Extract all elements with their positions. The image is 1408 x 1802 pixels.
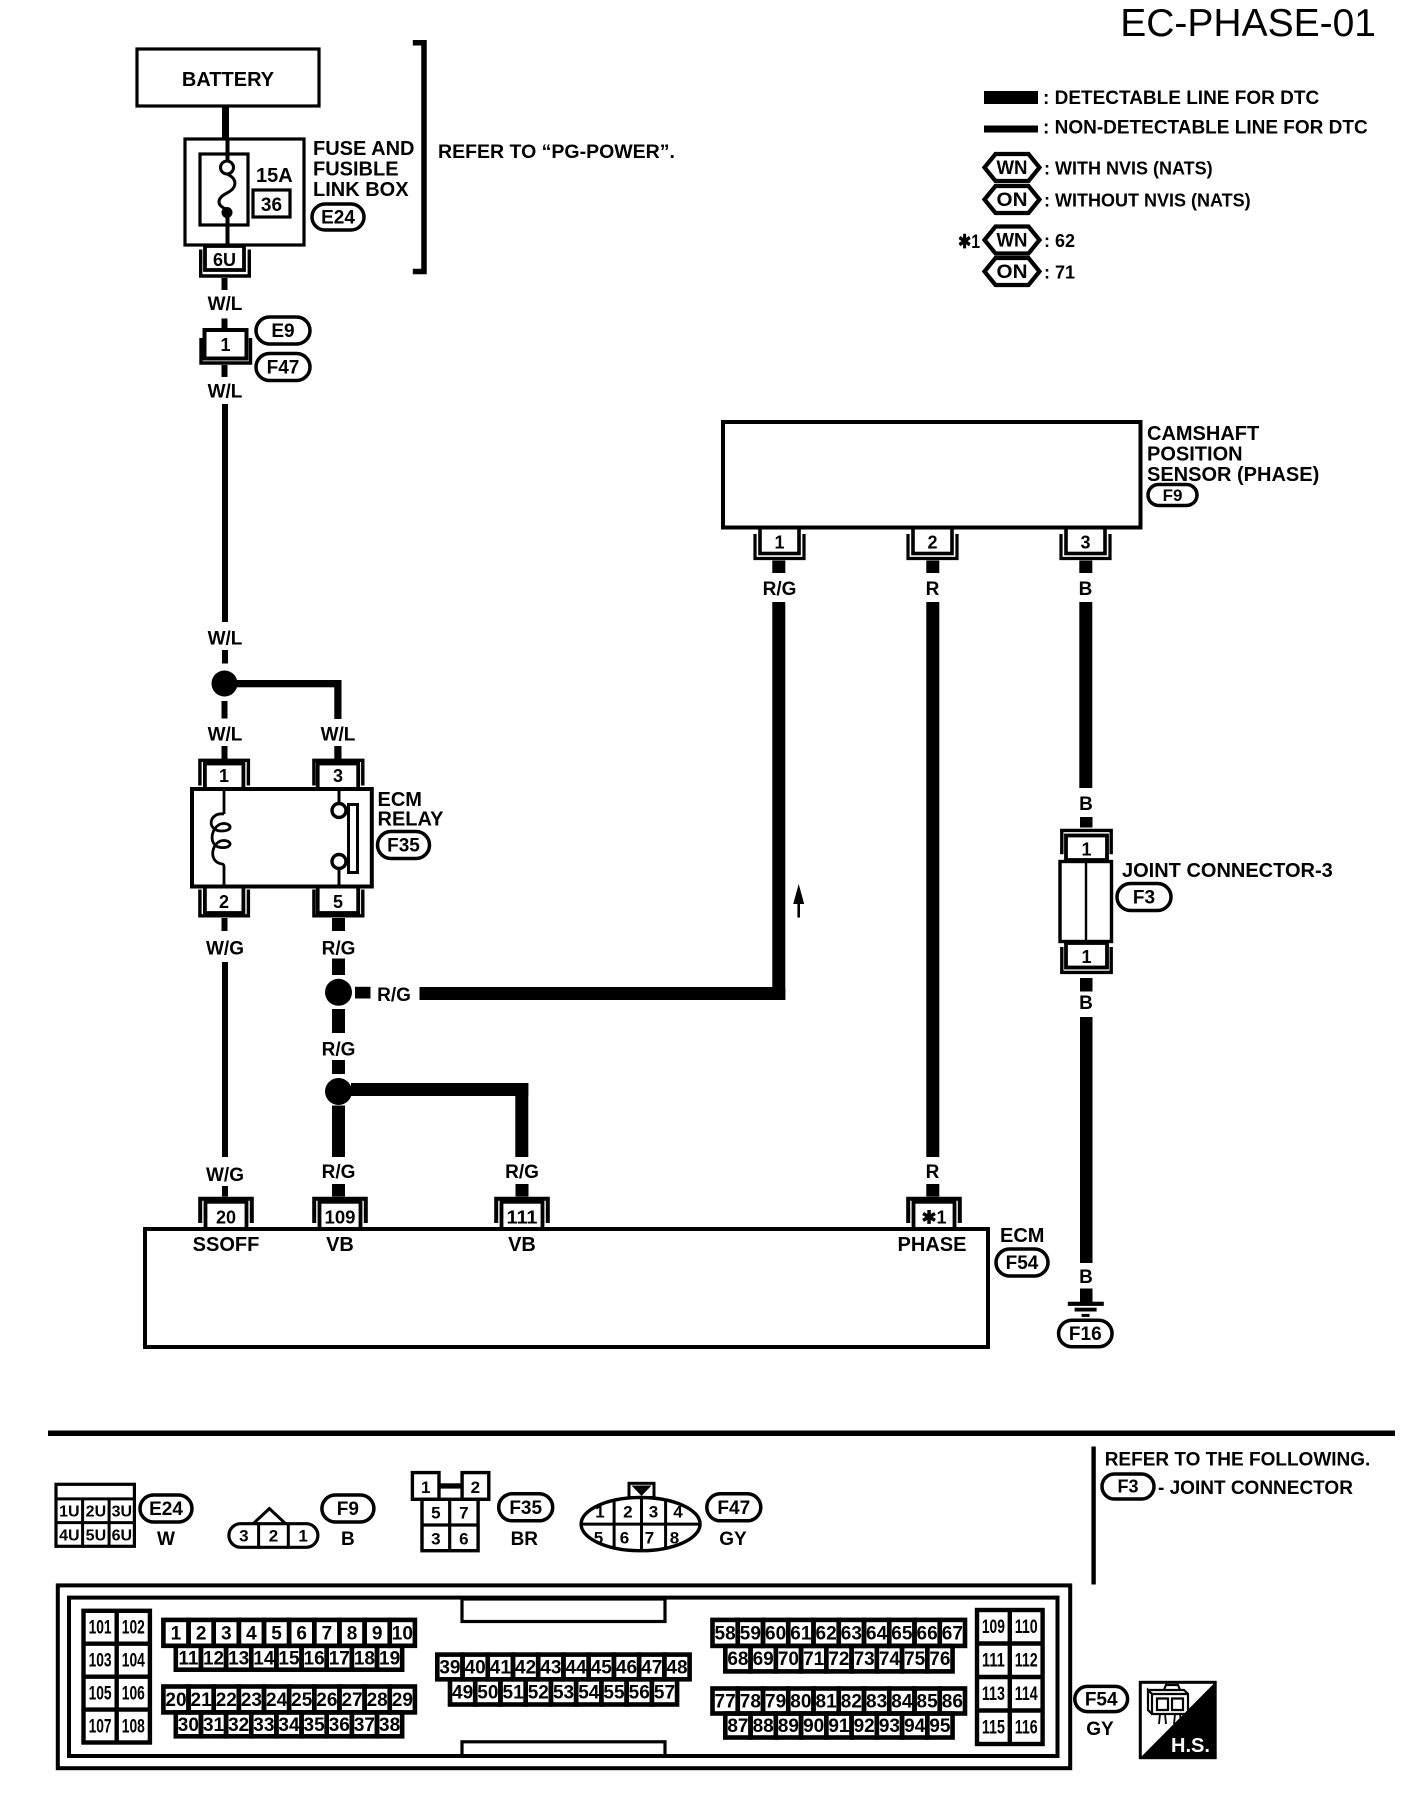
svg-text:F54: F54 (1085, 1690, 1118, 1711)
svg-text:109: 109 (982, 1617, 1005, 1638)
ECM connector cells 87-95 (725, 1714, 952, 1738)
svg-text:W/G: W/G (206, 939, 244, 960)
H.S. logo (1140, 1682, 1215, 1757)
svg-text:42: 42 (515, 1657, 536, 1678)
label GY (1086, 1719, 1114, 1740)
long wire W/G (222, 962, 228, 1157)
svg-text:92: 92 (854, 1716, 875, 1737)
svg-text:B: B (1079, 993, 1093, 1014)
connector id F35 oval (499, 1494, 553, 1521)
ECM pin 111 (496, 1199, 548, 1229)
svg-text:115: 115 (982, 1718, 1005, 1739)
svg-text:66: 66 (917, 1623, 938, 1644)
svg-text:56: 56 (629, 1682, 650, 1703)
svg-text:47: 47 (641, 1657, 662, 1678)
svg-text:17: 17 (329, 1648, 350, 1669)
svg-text:82: 82 (841, 1692, 862, 1713)
svg-text:: 71: : 71 (1044, 263, 1075, 283)
svg-text:E24: E24 (321, 208, 355, 229)
svg-text:114: 114 (1015, 1684, 1038, 1705)
battery (137, 49, 319, 106)
svg-text:: WITHOUT NVIS (NATS): : WITHOUT NVIS (NATS) (1044, 191, 1251, 211)
label R/G above pin 109 (322, 1162, 356, 1183)
svg-text:H.S.: H.S. (1171, 1735, 1210, 1757)
connector id E24 oval (140, 1495, 192, 1522)
svg-text:44: 44 (565, 1657, 587, 1678)
svg-text:63: 63 (841, 1623, 862, 1644)
svg-text:ON: ON (997, 190, 1028, 211)
svg-text:91: 91 (828, 1716, 850, 1737)
svg-text:B: B (1079, 794, 1093, 815)
svg-text:43: 43 (540, 1657, 561, 1678)
svg-text:- JOINT CONNECTOR: - JOINT CONNECTOR (1158, 1478, 1353, 1499)
legend ON text (1044, 191, 1251, 211)
svg-text:46: 46 (616, 1657, 637, 1678)
svg-text:3: 3 (333, 766, 343, 786)
svg-text:25: 25 (291, 1690, 313, 1711)
svg-text:W/L: W/L (321, 725, 356, 746)
wire stub into pin 111 (516, 1184, 529, 1197)
svg-text:106: 106 (122, 1683, 145, 1704)
svg-text:83: 83 (866, 1692, 887, 1713)
label CAMSHAFT POSITION SENSOR (PHASE) (1147, 423, 1319, 486)
svg-text:20: 20 (165, 1690, 186, 1711)
wire battery to fuse box (222, 106, 229, 139)
svg-text:2: 2 (471, 1478, 480, 1497)
note WN badge (985, 227, 1040, 254)
svg-text:REFER TO “PG-POWER”.: REFER TO “PG-POWER”. (438, 141, 675, 163)
svg-text:77: 77 (715, 1692, 736, 1713)
svg-text:10: 10 (392, 1623, 413, 1644)
svg-text:108: 108 (122, 1716, 145, 1737)
svg-text:2U: 2U (86, 1504, 106, 1521)
svg-text:24: 24 (266, 1690, 288, 1711)
legend WN text (1044, 159, 1213, 179)
label B (341, 1529, 355, 1550)
junction dot W/L (212, 671, 238, 697)
relay pin 3 (314, 760, 363, 789)
svg-text:85: 85 (917, 1692, 939, 1713)
svg-text:WN: WN (997, 231, 1028, 252)
svg-text:39: 39 (439, 1657, 460, 1678)
svg-text:109: 109 (325, 1208, 356, 1228)
dash above junction (222, 650, 228, 664)
svg-text:R/G: R/G (505, 1162, 539, 1183)
svg-text:E24: E24 (149, 1499, 183, 1520)
label B above ground (1079, 1267, 1093, 1288)
svg-text:36: 36 (261, 195, 282, 216)
svg-text:5U: 5U (86, 1527, 106, 1544)
svg-text:1: 1 (774, 533, 784, 553)
svg-text:F16: F16 (1069, 1324, 1102, 1345)
svg-text:104: 104 (122, 1650, 145, 1671)
ECM connector cells 77-86 (713, 1689, 966, 1714)
svg-text:11: 11 (178, 1648, 199, 1669)
label BR (511, 1529, 539, 1550)
label R/G (763, 579, 797, 600)
svg-text:22: 22 (216, 1690, 237, 1711)
connector id F3 oval (1117, 884, 1171, 911)
connector id F9 oval (1148, 485, 1197, 506)
connector id E9 oval (256, 317, 310, 344)
svg-text:SENSOR (PHASE): SENSOR (PHASE) (1147, 464, 1319, 486)
svg-text:5: 5 (271, 1623, 282, 1644)
svg-text:57: 57 (654, 1682, 675, 1703)
svg-text:6: 6 (296, 1623, 307, 1644)
svg-text:15: 15 (278, 1648, 300, 1669)
bottom notch (462, 1742, 665, 1756)
svg-text:49: 49 (452, 1682, 473, 1703)
separator line (48, 1431, 1395, 1437)
legend WN badge (985, 154, 1040, 181)
title EC-PHASE-01 (1120, 2, 1376, 45)
svg-text:59: 59 (740, 1623, 761, 1644)
svg-text:F35: F35 (387, 836, 420, 857)
wire stub into pin *1 (926, 1184, 939, 1197)
svg-text:62: 62 (816, 1623, 837, 1644)
svg-text:71: 71 (803, 1649, 825, 1670)
ECM pin 20 (200, 1199, 252, 1229)
svg-text:1: 1 (219, 766, 229, 786)
svg-text:2: 2 (623, 1503, 632, 1522)
ECM connector cells 68-76 (725, 1646, 952, 1672)
camshaft pin 3 (1061, 528, 1110, 559)
long wire R (926, 602, 939, 1157)
svg-text:2: 2 (269, 1527, 278, 1546)
svg-text:5: 5 (431, 1504, 440, 1523)
svg-text:52: 52 (528, 1682, 549, 1703)
legend non-detectable text (1043, 118, 1368, 139)
svg-text:B: B (1079, 579, 1093, 600)
wire stub into relay pin 3 (334, 746, 341, 759)
arrow up on R/G wire (793, 884, 804, 918)
svg-text:F9: F9 (337, 1499, 359, 1520)
svg-text:R: R (926, 579, 940, 600)
svg-text:1: 1 (298, 1527, 307, 1546)
svg-text:FUSIBLE: FUSIBLE (313, 159, 399, 181)
svg-text:69: 69 (753, 1649, 774, 1670)
branch wire to relay pin 3 (225, 680, 342, 719)
label R/G above pin 111 (505, 1162, 539, 1183)
label R (926, 579, 940, 600)
inline connector 1 E9/F47 (201, 330, 251, 363)
svg-text:89: 89 (778, 1716, 799, 1737)
connector id F35 oval (378, 832, 430, 859)
label W/L left (208, 725, 243, 746)
svg-text:3U: 3U (112, 1504, 132, 1521)
wire below connector 1 (222, 365, 228, 377)
branch wire R/G to pin 111 (351, 1083, 528, 1157)
connector id F9 oval (322, 1495, 374, 1522)
svg-text:41: 41 (490, 1657, 512, 1678)
svg-text:107: 107 (89, 1716, 112, 1737)
svg-text:3: 3 (431, 1529, 440, 1548)
label SSOFF (193, 1234, 260, 1256)
label R/G on branch (377, 985, 411, 1006)
svg-text:1: 1 (171, 1623, 182, 1644)
svg-text:WN: WN (997, 158, 1028, 179)
svg-text:W: W (157, 1529, 175, 1550)
top notch (462, 1599, 665, 1622)
ECM box F54 (145, 1229, 988, 1347)
svg-text:1U: 1U (59, 1504, 79, 1521)
svg-text:POSITION: POSITION (1147, 444, 1243, 466)
svg-text:6U: 6U (112, 1527, 132, 1544)
wire into connector 1 (222, 319, 228, 331)
svg-text:3: 3 (221, 1623, 232, 1644)
svg-text:BATTERY: BATTERY (182, 69, 275, 91)
svg-text:26: 26 (316, 1690, 337, 1711)
wire stub camshaft pin 2 (926, 561, 939, 574)
svg-text:: WITH NVIS (NATS): : WITH NVIS (NATS) (1044, 159, 1213, 179)
svg-text:8: 8 (347, 1623, 358, 1644)
label W/L (208, 629, 243, 650)
svg-text:R/G: R/G (377, 985, 411, 1006)
camshaft pin 2 (908, 528, 957, 559)
camshaft position sensor box (723, 422, 1141, 528)
svg-text:: DETECTABLE LINE FOR DTC: : DETECTABLE LINE FOR DTC (1043, 88, 1319, 109)
svg-text:55: 55 (603, 1682, 625, 1703)
connector cavity diagram E24 (56, 1484, 134, 1546)
label R/G (322, 1040, 356, 1061)
svg-text:80: 80 (790, 1692, 811, 1713)
label W/G (206, 939, 244, 960)
svg-text:90: 90 (803, 1716, 824, 1737)
svg-text:4: 4 (246, 1623, 257, 1644)
svg-text:13: 13 (228, 1648, 249, 1669)
wire 6U to E9 connector W/L (222, 278, 228, 290)
svg-text:50: 50 (477, 1682, 498, 1703)
label R/G (322, 939, 356, 960)
svg-text:87: 87 (727, 1716, 748, 1737)
svg-text:116: 116 (1015, 1718, 1038, 1739)
svg-text:W/L: W/L (208, 725, 243, 746)
legend ON badge (985, 186, 1040, 213)
svg-text:: NON-DETECTABLE LINE FOR DTC: : NON-DETECTABLE LINE FOR DTC (1043, 118, 1368, 139)
thick wire R/G to camshaft pin 1 (420, 602, 786, 1000)
svg-text:ON: ON (997, 262, 1028, 283)
svg-text:B: B (341, 1529, 355, 1550)
svg-text:F3: F3 (1117, 1477, 1138, 1497)
label B (1079, 794, 1093, 815)
svg-text:110: 110 (1015, 1617, 1038, 1638)
svg-text:61: 61 (790, 1623, 812, 1644)
svg-text:15A: 15A (256, 165, 293, 187)
svg-text:EC-PHASE-01: EC-PHASE-01 (1120, 2, 1376, 45)
relay coil (211, 789, 230, 887)
svg-text:F47: F47 (717, 1498, 750, 1519)
svg-text:1: 1 (421, 1478, 430, 1497)
svg-text:7: 7 (645, 1529, 654, 1548)
svg-text:F35: F35 (509, 1498, 542, 1519)
ECM connector cells 11-19 (176, 1646, 402, 1670)
svg-text:RELAY: RELAY (378, 809, 445, 831)
joint connector-3 body (1060, 862, 1112, 942)
relay pin 5 (314, 887, 363, 916)
fuse and fusible link box E24 (185, 139, 304, 245)
connector id E24 oval (312, 204, 364, 230)
svg-text:102: 102 (122, 1618, 145, 1639)
svg-text:W/L: W/L (208, 629, 243, 650)
wire stub camshaft pin 1 (772, 561, 785, 574)
ECM pin *1 (908, 1199, 960, 1229)
svg-text:5: 5 (333, 892, 343, 912)
svg-text:: 62: : 62 (1044, 231, 1075, 251)
svg-text:94: 94 (904, 1716, 926, 1737)
svg-text:W/L: W/L (208, 382, 243, 403)
svg-text:F3: F3 (1133, 888, 1155, 909)
svg-text:VB: VB (508, 1234, 536, 1256)
svg-text:12: 12 (203, 1648, 224, 1669)
svg-text:LINK BOX: LINK BOX (313, 179, 409, 201)
ECM pin 109 (314, 1199, 366, 1229)
wire R/G stub below relay pin 5 (332, 918, 345, 931)
svg-text:51: 51 (503, 1682, 525, 1703)
dash below junction (222, 701, 228, 719)
svg-text:28: 28 (367, 1690, 388, 1711)
svg-text:B: B (1079, 1267, 1093, 1288)
svg-text:6: 6 (620, 1529, 629, 1548)
svg-text:33: 33 (253, 1715, 274, 1736)
svg-text:R/G: R/G (763, 579, 797, 600)
svg-text:2: 2 (196, 1623, 207, 1644)
svg-text:23: 23 (241, 1690, 262, 1711)
legend detectable line bar (984, 91, 1038, 104)
svg-text:54: 54 (578, 1682, 600, 1703)
joint connector top pin 1 (1062, 830, 1111, 860)
svg-text:21: 21 (191, 1690, 213, 1711)
svg-text:CAMSHAFT: CAMSHAFT (1147, 423, 1259, 445)
svg-text:74: 74 (879, 1649, 901, 1670)
svg-text:111: 111 (982, 1651, 1005, 1672)
bracket refer to PG-POWER (413, 43, 424, 272)
svg-text:79: 79 (765, 1692, 786, 1713)
ECM connector outline (58, 1585, 1070, 1768)
legend detectable text (1043, 88, 1319, 109)
svg-text:48: 48 (666, 1657, 687, 1678)
svg-text:SSOFF: SSOFF (193, 1234, 260, 1256)
svg-text:112: 112 (1015, 1651, 1038, 1672)
svg-text:R: R (926, 1162, 940, 1183)
ECM connector cells 30-38 (176, 1712, 402, 1736)
label ECM RELAY (378, 789, 445, 831)
svg-text:2: 2 (219, 892, 229, 912)
svg-text:✱1: ✱1 (921, 1208, 946, 1228)
svg-text:30: 30 (178, 1715, 199, 1736)
label W/L right (321, 725, 356, 746)
svg-text:64: 64 (866, 1623, 888, 1644)
svg-text:W/G: W/G (206, 1165, 244, 1186)
svg-text:45: 45 (591, 1657, 613, 1678)
svg-text:VB: VB (326, 1234, 354, 1256)
fuse number 36 box (253, 190, 290, 217)
junction dot R/G 1 (325, 979, 352, 1006)
ECM connector right block 109-116 (977, 1610, 1043, 1744)
relay contact (332, 789, 358, 887)
svg-text:70: 70 (778, 1649, 799, 1670)
connector cavity diagram F47 (581, 1483, 700, 1550)
dash right of junction (355, 987, 371, 999)
ECM connector cells 58-67 (713, 1620, 966, 1646)
dash below junction 1 (332, 1009, 345, 1033)
svg-text:✱1: ✱1 (958, 232, 980, 253)
label W/L (208, 294, 243, 315)
svg-text:76: 76 (929, 1649, 950, 1670)
label B (1079, 579, 1093, 600)
ECM connector cells 49-57 (450, 1679, 677, 1704)
connector cavity diagram F9 (229, 1509, 318, 1548)
label FUSE AND FUSIBLE LINK BOX (313, 138, 414, 201)
svg-text:3: 3 (649, 1503, 658, 1522)
wire stub into relay pin 1 (222, 746, 228, 759)
legend non-detectable line bar (984, 126, 1038, 133)
svg-text:95: 95 (929, 1716, 951, 1737)
label ECM (1000, 1225, 1044, 1247)
connector cavity diagram F35 (412, 1473, 488, 1551)
svg-text:67: 67 (942, 1623, 963, 1644)
svg-text:FUSE AND: FUSE AND (313, 138, 414, 160)
svg-text:32: 32 (228, 1715, 249, 1736)
svg-text:9: 9 (372, 1623, 383, 1644)
text JOINT CONNECTOR (1158, 1478, 1353, 1499)
svg-text:ECM: ECM (1000, 1225, 1044, 1247)
svg-text:93: 93 (879, 1716, 900, 1737)
svg-text:6U: 6U (213, 250, 236, 270)
svg-text:GY: GY (1086, 1719, 1114, 1740)
svg-text:1: 1 (220, 335, 230, 355)
svg-text:72: 72 (828, 1649, 849, 1670)
svg-text:PHASE: PHASE (898, 1234, 967, 1256)
connector id F47 oval (707, 1494, 761, 1521)
svg-text:16: 16 (304, 1648, 325, 1669)
ECM connector cells 39-48 (437, 1655, 689, 1680)
svg-text:W/L: W/L (208, 294, 243, 315)
wire below junction 2 (332, 1106, 345, 1158)
note WN value 62 (1044, 231, 1075, 251)
svg-text:E9: E9 (271, 321, 294, 342)
label GY (719, 1529, 747, 1550)
svg-text:103: 103 (89, 1650, 112, 1671)
svg-text:81: 81 (816, 1692, 838, 1713)
wire W/G stub into pin 20 (222, 1186, 228, 1197)
label VB (326, 1234, 354, 1256)
svg-text:7: 7 (459, 1504, 468, 1523)
dash B below joint connector (1080, 978, 1093, 992)
svg-text:14: 14 (253, 1648, 275, 1669)
label W/G (206, 1165, 244, 1186)
connector id F54 oval (1075, 1686, 1128, 1711)
svg-text:88: 88 (753, 1716, 774, 1737)
long wire W/L down (222, 404, 228, 622)
svg-text:60: 60 (765, 1623, 786, 1644)
svg-text:8: 8 (670, 1529, 679, 1548)
svg-text:75: 75 (904, 1649, 926, 1670)
svg-text:1: 1 (1081, 840, 1091, 860)
svg-text:20: 20 (216, 1208, 236, 1228)
label R above pin *1 (926, 1162, 940, 1183)
svg-text:105: 105 (89, 1683, 112, 1704)
svg-text:35: 35 (304, 1715, 326, 1736)
ECM connector cells 20-29 (163, 1687, 415, 1713)
svg-text:JOINT CONNECTOR-3: JOINT CONNECTOR-3 (1122, 860, 1333, 882)
svg-text:111: 111 (507, 1208, 538, 1228)
svg-text:84: 84 (891, 1692, 913, 1713)
ground symbol (1068, 1289, 1104, 1317)
svg-text:3: 3 (239, 1527, 248, 1546)
label W/L (208, 382, 243, 403)
label W (157, 1529, 175, 1550)
svg-text:F54: F54 (1006, 1253, 1039, 1274)
